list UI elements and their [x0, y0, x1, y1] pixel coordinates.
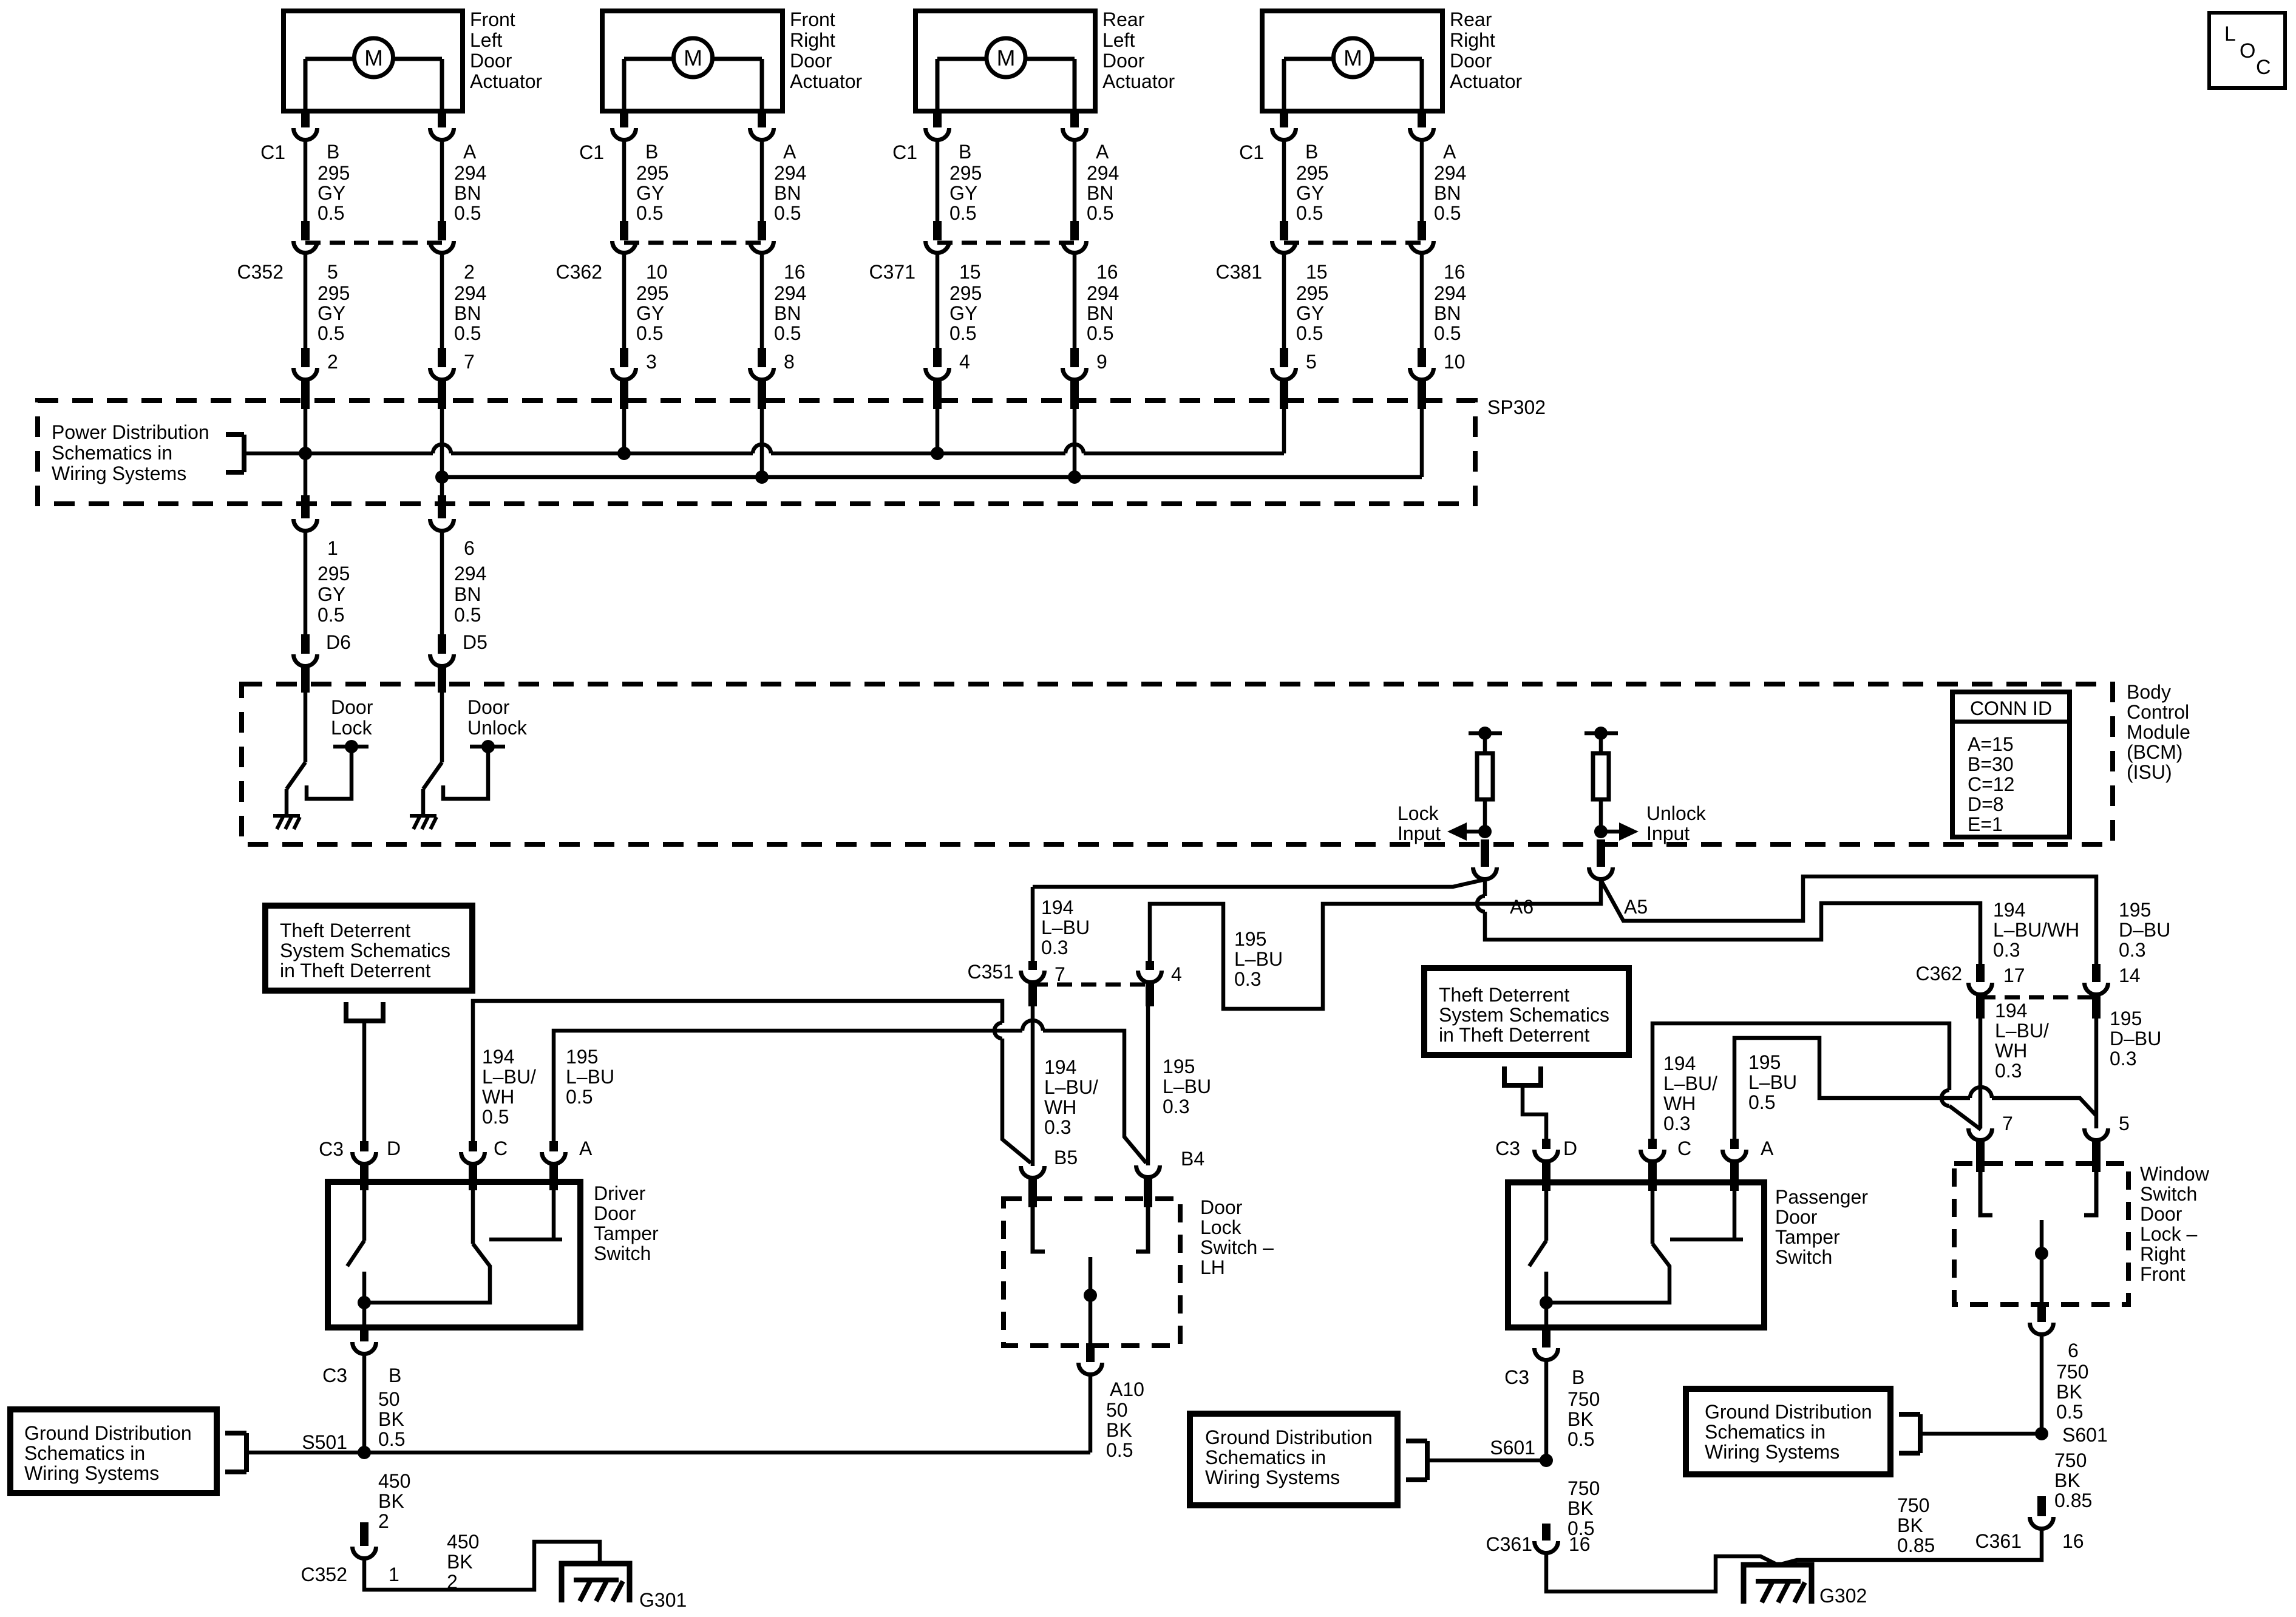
svg-text:294: 294	[1434, 162, 1466, 184]
svg-text:294: 294	[454, 563, 486, 585]
svg-text:Switch: Switch	[1775, 1246, 1832, 1268]
svg-text:Theft Deterrent: Theft Deterrent	[1439, 984, 1569, 1006]
svg-text:4: 4	[959, 351, 970, 373]
svg-text:2: 2	[447, 1571, 458, 1593]
svg-text:15: 15	[959, 261, 981, 283]
svg-text:450: 450	[447, 1531, 479, 1553]
svg-text:15: 15	[1306, 261, 1328, 283]
svg-text:750: 750	[1897, 1494, 1929, 1516]
svg-text:1: 1	[327, 537, 338, 559]
svg-text:0.5: 0.5	[949, 322, 976, 344]
svg-text:295: 295	[318, 282, 350, 304]
svg-text:LH: LH	[1200, 1256, 1225, 1278]
svg-text:750: 750	[1567, 1477, 1600, 1499]
svg-text:7: 7	[1055, 963, 1065, 985]
svg-text:Switch: Switch	[2140, 1183, 2197, 1205]
svg-text:C3: C3	[1504, 1366, 1529, 1388]
svg-text:Lock: Lock	[1398, 802, 1439, 824]
svg-text:Schematics in: Schematics in	[1205, 1446, 1326, 1468]
svg-text:Body: Body	[2127, 681, 2171, 703]
svg-text:L–BU: L–BU	[566, 1066, 614, 1088]
svg-text:GY: GY	[949, 182, 977, 204]
svg-text:C361: C361	[1975, 1530, 2022, 1552]
svg-text:E=1: E=1	[1968, 813, 2003, 835]
svg-text:O: O	[2240, 39, 2255, 63]
svg-text:B: B	[389, 1364, 401, 1386]
svg-text:Door: Door	[1102, 50, 1145, 72]
svg-text:Control: Control	[2127, 701, 2189, 723]
svg-text:A: A	[1761, 1137, 1774, 1159]
svg-text:0.5: 0.5	[1567, 1428, 1594, 1450]
svg-text:B=30: B=30	[1968, 753, 2014, 775]
svg-text:Ground Distribution: Ground Distribution	[24, 1422, 192, 1444]
svg-text:D–BU: D–BU	[2110, 1028, 2161, 1049]
svg-text:0.5: 0.5	[2056, 1401, 2083, 1423]
svg-text:B: B	[959, 141, 971, 163]
svg-text:0.5: 0.5	[454, 604, 481, 626]
svg-text:16: 16	[1096, 261, 1118, 283]
svg-text:16: 16	[2062, 1530, 2084, 1552]
svg-text:295: 295	[636, 282, 668, 304]
svg-text:D–BU: D–BU	[2119, 919, 2170, 941]
svg-text:BK: BK	[1106, 1419, 1132, 1441]
svg-text:294: 294	[1087, 162, 1119, 184]
svg-text:A: A	[1443, 141, 1456, 163]
svg-text:C351: C351	[968, 961, 1014, 983]
svg-text:M: M	[684, 46, 702, 70]
svg-text:Right: Right	[1450, 29, 1495, 51]
svg-text:0.5: 0.5	[1087, 322, 1113, 344]
svg-text:0.5: 0.5	[1748, 1091, 1775, 1113]
svg-text:BK: BK	[2056, 1381, 2082, 1403]
svg-text:Actuator: Actuator	[790, 70, 863, 92]
svg-text:Schematics in: Schematics in	[1705, 1421, 1826, 1443]
svg-text:295: 295	[949, 162, 982, 184]
svg-text:Left: Left	[470, 29, 502, 51]
svg-text:295: 295	[636, 162, 668, 184]
svg-text:Switch: Switch	[594, 1242, 651, 1264]
svg-text:BK: BK	[2054, 1470, 2080, 1491]
svg-text:L–BU: L–BU	[1748, 1071, 1797, 1093]
svg-text:L–BU/: L–BU/	[482, 1066, 536, 1088]
svg-text:295: 295	[1296, 282, 1328, 304]
svg-text:295: 295	[318, 162, 350, 184]
svg-text:C=12: C=12	[1968, 773, 2014, 795]
svg-text:System Schematics: System Schematics	[1439, 1004, 1609, 1026]
svg-text:Lock: Lock	[1200, 1216, 1242, 1238]
svg-text:L–BU: L–BU	[1234, 948, 1283, 970]
svg-text:System Schematics: System Schematics	[280, 940, 450, 961]
svg-text:195: 195	[2119, 899, 2151, 921]
svg-text:0.3: 0.3	[1041, 937, 1068, 958]
svg-text:D: D	[387, 1137, 401, 1159]
svg-text:194: 194	[482, 1046, 514, 1068]
svg-text:M: M	[1343, 46, 1362, 70]
svg-text:CONN ID: CONN ID	[1970, 697, 2052, 719]
svg-text:Input: Input	[1398, 822, 1441, 844]
svg-text:Driver: Driver	[594, 1182, 646, 1204]
svg-text:Front: Front	[790, 8, 835, 30]
svg-text:5: 5	[2119, 1113, 2130, 1134]
svg-text:0.5: 0.5	[1296, 322, 1323, 344]
svg-text:C3: C3	[1495, 1137, 1520, 1159]
svg-text:B: B	[645, 141, 658, 163]
svg-text:C: C	[494, 1137, 508, 1159]
svg-text:0.3: 0.3	[1993, 939, 2020, 961]
svg-text:S601: S601	[1490, 1437, 1535, 1459]
svg-text:BK: BK	[447, 1551, 473, 1573]
svg-text:BK: BK	[1567, 1408, 1594, 1430]
svg-text:0.3: 0.3	[1163, 1096, 1189, 1117]
svg-text:BN: BN	[1087, 182, 1113, 204]
svg-text:Left: Left	[1102, 29, 1135, 51]
svg-text:(ISU): (ISU)	[2127, 761, 2172, 783]
svg-text:B4: B4	[1181, 1148, 1204, 1170]
svg-text:Switch –: Switch –	[1200, 1236, 1274, 1258]
svg-text:16: 16	[1569, 1533, 1591, 1555]
svg-text:294: 294	[774, 282, 806, 304]
svg-text:G302: G302	[1819, 1585, 1867, 1607]
svg-text:Theft Deterrent: Theft Deterrent	[280, 920, 410, 941]
svg-text:Door: Door	[790, 50, 832, 72]
svg-text:16: 16	[784, 261, 806, 283]
svg-text:Right: Right	[2140, 1243, 2186, 1265]
svg-text:0.3: 0.3	[1663, 1113, 1690, 1134]
svg-text:M: M	[997, 46, 1016, 70]
svg-text:L–BU/: L–BU/	[1995, 1020, 2049, 1042]
svg-text:8: 8	[784, 351, 795, 373]
svg-text:WH: WH	[1044, 1096, 1076, 1118]
svg-text:C: C	[2256, 56, 2271, 79]
svg-text:Front: Front	[2140, 1263, 2186, 1285]
svg-text:294: 294	[1434, 282, 1466, 304]
svg-text:0.5: 0.5	[454, 322, 481, 344]
svg-text:GY: GY	[318, 302, 345, 324]
svg-text:750: 750	[2056, 1361, 2088, 1383]
svg-text:Lock: Lock	[331, 717, 373, 739]
svg-text:Schematics in: Schematics in	[24, 1442, 145, 1464]
svg-text:7: 7	[2002, 1113, 2013, 1134]
svg-text:0.5: 0.5	[1106, 1439, 1133, 1461]
svg-text:Passenger: Passenger	[1775, 1186, 1868, 1208]
svg-text:L–BU/: L–BU/	[1663, 1073, 1717, 1094]
svg-text:Module: Module	[2127, 721, 2190, 743]
svg-text:S501: S501	[302, 1431, 347, 1453]
svg-text:10: 10	[1444, 351, 1466, 373]
svg-text:BN: BN	[454, 583, 481, 605]
svg-text:0.5: 0.5	[1434, 202, 1461, 224]
svg-text:Wiring Systems: Wiring Systems	[1705, 1441, 1839, 1463]
svg-text:0.3: 0.3	[2110, 1048, 2136, 1070]
svg-text:C1: C1	[892, 141, 917, 163]
svg-text:C362: C362	[1916, 963, 1963, 985]
svg-text:Lock –: Lock –	[2140, 1223, 2197, 1245]
svg-text:Door: Door	[1450, 50, 1492, 72]
svg-text:Rear: Rear	[1102, 8, 1145, 30]
svg-text:0.5: 0.5	[378, 1428, 405, 1450]
svg-text:294: 294	[774, 162, 806, 184]
svg-text:0.3: 0.3	[1995, 1060, 2022, 1082]
svg-text:Window: Window	[2140, 1163, 2210, 1185]
svg-text:295: 295	[949, 282, 982, 304]
svg-text:195: 195	[1163, 1056, 1195, 1077]
svg-text:0.5: 0.5	[636, 202, 663, 224]
svg-text:A6: A6	[1510, 896, 1533, 918]
svg-text:0.85: 0.85	[1897, 1534, 1935, 1556]
svg-text:L: L	[2224, 22, 2236, 46]
svg-text:5: 5	[1306, 351, 1317, 373]
svg-text:A5: A5	[1624, 896, 1648, 918]
svg-text:WH: WH	[1663, 1093, 1696, 1114]
svg-text:Actuator: Actuator	[1102, 70, 1175, 92]
svg-text:(BCM): (BCM)	[2127, 741, 2182, 763]
svg-text:750: 750	[2054, 1449, 2087, 1471]
svg-text:C1: C1	[1239, 141, 1264, 163]
svg-text:BN: BN	[774, 182, 801, 204]
svg-text:195: 195	[2110, 1008, 2142, 1029]
svg-text:Door: Door	[331, 696, 373, 718]
svg-text:C3: C3	[322, 1364, 347, 1386]
svg-text:Actuator: Actuator	[470, 70, 543, 92]
svg-text:GY: GY	[636, 302, 664, 324]
svg-text:0.5: 0.5	[318, 202, 344, 224]
svg-text:Door: Door	[1200, 1196, 1243, 1218]
svg-text:C361: C361	[1486, 1533, 1533, 1555]
svg-text:D=8: D=8	[1968, 793, 2004, 815]
svg-text:194: 194	[1663, 1053, 1696, 1074]
svg-text:GY: GY	[318, 182, 345, 204]
svg-text:B5: B5	[1054, 1147, 1078, 1168]
svg-text:C352: C352	[301, 1564, 348, 1585]
svg-text:Door: Door	[1775, 1206, 1818, 1228]
svg-text:S601: S601	[2062, 1424, 2108, 1446]
svg-text:0.5: 0.5	[318, 604, 344, 626]
svg-text:GY: GY	[636, 182, 664, 204]
svg-text:D5: D5	[463, 631, 487, 653]
svg-text:L–BU/: L–BU/	[1044, 1076, 1098, 1098]
svg-text:6: 6	[2068, 1340, 2079, 1361]
svg-text:BN: BN	[1434, 302, 1461, 324]
svg-text:C352: C352	[237, 261, 284, 283]
svg-text:GY: GY	[1296, 302, 1324, 324]
svg-text:A: A	[579, 1137, 593, 1159]
svg-text:C381: C381	[1216, 261, 1263, 283]
svg-text:C1: C1	[579, 141, 604, 163]
svg-text:294: 294	[1087, 282, 1119, 304]
svg-text:2: 2	[378, 1510, 389, 1532]
svg-text:194: 194	[1995, 1000, 2027, 1022]
svg-text:295: 295	[318, 563, 350, 585]
svg-text:1: 1	[389, 1564, 399, 1585]
svg-text:D: D	[1563, 1137, 1577, 1159]
svg-text:C362: C362	[556, 261, 603, 283]
svg-text:50: 50	[378, 1388, 400, 1410]
svg-text:195: 195	[1234, 928, 1266, 950]
svg-text:0.5: 0.5	[566, 1086, 593, 1108]
svg-text:7: 7	[464, 351, 475, 373]
svg-text:in Theft Deterrent: in Theft Deterrent	[1439, 1024, 1590, 1046]
svg-text:294: 294	[454, 282, 486, 304]
svg-text:6: 6	[464, 537, 475, 559]
svg-text:C: C	[1677, 1137, 1691, 1159]
svg-text:D6: D6	[326, 631, 351, 653]
svg-text:Tamper: Tamper	[1775, 1226, 1840, 1248]
svg-text:750: 750	[1567, 1388, 1600, 1410]
svg-text:5: 5	[327, 261, 338, 283]
svg-text:Rear: Rear	[1450, 8, 1492, 30]
svg-text:194: 194	[1041, 897, 1073, 918]
svg-text:WH: WH	[1995, 1040, 2027, 1062]
svg-text:0.3: 0.3	[1044, 1116, 1071, 1138]
svg-text:Input: Input	[1646, 822, 1690, 844]
svg-text:295: 295	[1296, 162, 1328, 184]
svg-text:BN: BN	[774, 302, 801, 324]
svg-text:C371: C371	[869, 261, 916, 283]
svg-text:0.5: 0.5	[1087, 202, 1113, 224]
svg-text:Ground Distribution: Ground Distribution	[1705, 1401, 1872, 1423]
svg-text:2: 2	[327, 351, 338, 373]
svg-text:Unlock: Unlock	[1646, 802, 1707, 824]
svg-text:Door: Door	[467, 696, 510, 718]
svg-text:GY: GY	[1296, 182, 1324, 204]
svg-text:L–BU: L–BU	[1163, 1076, 1211, 1097]
svg-text:2: 2	[464, 261, 475, 283]
svg-text:SP302: SP302	[1487, 396, 1546, 418]
svg-text:GY: GY	[318, 583, 345, 605]
svg-text:A: A	[1096, 141, 1109, 163]
svg-text:Right: Right	[790, 29, 835, 51]
svg-text:Tamper: Tamper	[594, 1222, 659, 1244]
svg-text:A=15: A=15	[1968, 733, 2014, 755]
svg-text:0.3: 0.3	[2119, 939, 2145, 961]
svg-text:0.5: 0.5	[774, 322, 801, 344]
svg-text:Wiring Systems: Wiring Systems	[1205, 1466, 1340, 1488]
svg-text:0.5: 0.5	[1434, 322, 1461, 344]
svg-text:0.5: 0.5	[454, 202, 481, 224]
svg-text:3: 3	[646, 351, 657, 373]
svg-text:BK: BK	[1897, 1514, 1923, 1536]
svg-text:WH: WH	[482, 1086, 514, 1108]
svg-text:Wiring Systems: Wiring Systems	[52, 463, 186, 484]
svg-text:17: 17	[2003, 964, 2025, 986]
svg-text:Power Distribution: Power Distribution	[52, 421, 209, 443]
svg-text:A10: A10	[1110, 1378, 1144, 1400]
svg-text:C1: C1	[260, 141, 285, 163]
svg-text:Ground Distribution: Ground Distribution	[1205, 1426, 1373, 1448]
svg-text:0.5: 0.5	[318, 322, 344, 344]
svg-text:BN: BN	[1087, 302, 1113, 324]
svg-text:C3: C3	[319, 1138, 344, 1160]
svg-text:195: 195	[1748, 1051, 1781, 1073]
svg-text:194: 194	[1044, 1056, 1076, 1078]
svg-text:L–BU: L–BU	[1041, 917, 1090, 938]
svg-text:0.5: 0.5	[1296, 202, 1323, 224]
svg-text:Front: Front	[470, 8, 515, 30]
svg-text:M: M	[364, 46, 383, 70]
svg-text:BK: BK	[378, 1408, 404, 1430]
svg-text:195: 195	[566, 1046, 598, 1068]
svg-text:16: 16	[1444, 261, 1466, 283]
svg-text:BK: BK	[1567, 1497, 1594, 1519]
svg-text:L–BU/WH: L–BU/WH	[1993, 919, 2079, 941]
svg-text:4: 4	[1171, 963, 1182, 985]
svg-text:Door: Door	[470, 50, 512, 72]
svg-text:Actuator: Actuator	[1450, 70, 1523, 92]
svg-text:9: 9	[1096, 351, 1107, 373]
svg-text:14: 14	[2119, 964, 2141, 986]
svg-text:G301: G301	[639, 1589, 687, 1611]
svg-text:GY: GY	[949, 302, 977, 324]
svg-text:BK: BK	[378, 1490, 404, 1512]
svg-text:Wiring Systems: Wiring Systems	[24, 1462, 159, 1484]
svg-text:B: B	[1572, 1366, 1584, 1388]
svg-text:0.85: 0.85	[2054, 1490, 2092, 1511]
svg-text:Door: Door	[2140, 1203, 2182, 1225]
svg-text:Unlock: Unlock	[467, 717, 528, 739]
svg-text:0.5: 0.5	[636, 322, 663, 344]
svg-text:BN: BN	[1434, 182, 1461, 204]
svg-text:194: 194	[1993, 899, 2025, 921]
svg-text:0.3: 0.3	[1234, 968, 1261, 990]
svg-text:0.5: 0.5	[949, 202, 976, 224]
svg-text:A: A	[463, 141, 477, 163]
svg-text:0.5: 0.5	[774, 202, 801, 224]
svg-text:450: 450	[378, 1470, 410, 1492]
svg-text:Schematics in: Schematics in	[52, 442, 172, 464]
svg-text:BN: BN	[454, 302, 481, 324]
svg-text:294: 294	[454, 162, 486, 184]
svg-text:A: A	[783, 141, 796, 163]
svg-text:50: 50	[1106, 1399, 1128, 1421]
svg-text:10: 10	[646, 261, 668, 283]
svg-text:B: B	[327, 141, 339, 163]
svg-text:0.5: 0.5	[482, 1106, 509, 1128]
svg-text:BN: BN	[454, 182, 481, 204]
svg-text:in Theft Deterrent: in Theft Deterrent	[280, 960, 431, 981]
svg-text:Door: Door	[594, 1202, 636, 1224]
svg-text:B: B	[1305, 141, 1318, 163]
